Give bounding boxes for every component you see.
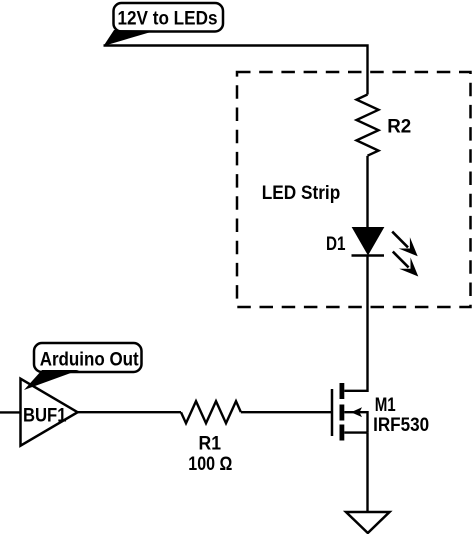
svg-text:M1: M1 xyxy=(375,395,396,416)
svg-text:12V to LEDs: 12V to LEDs xyxy=(118,8,218,29)
svg-text:D1: D1 xyxy=(326,234,346,255)
svg-text:Arduino Out: Arduino Out xyxy=(40,349,140,370)
svg-text:R2: R2 xyxy=(387,117,411,138)
svg-text:R1: R1 xyxy=(199,434,222,455)
svg-text:BUF1: BUF1 xyxy=(23,406,67,427)
svg-text:100 Ω: 100 Ω xyxy=(188,454,232,475)
svg-text:LED Strip: LED Strip xyxy=(262,183,341,204)
svg-text:IRF530: IRF530 xyxy=(373,415,429,436)
